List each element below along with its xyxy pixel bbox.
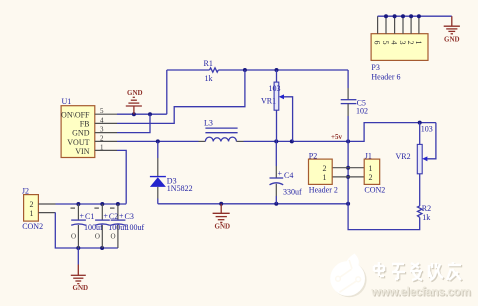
node P3 pin3 [401,14,405,18]
svg-text:1k: 1k [205,74,213,83]
svg-text:1N5822: 1N5822 [167,184,193,193]
svg-text:R1: R1 [204,59,213,68]
svg-text:2: 2 [323,164,327,173]
svg-text:R2: R2 [422,204,431,213]
wire R2 bottom return [348,204,420,230]
svg-text:J2: J2 [22,187,29,196]
svg-text:1: 1 [323,173,327,182]
header P2 [309,151,338,194]
svg-text:2: 2 [100,134,104,142]
svg-text:C1: C1 [85,212,94,221]
wire VOUT line left [117,140,199,142]
wire FB path [117,70,245,123]
node D3 top [156,139,160,143]
svg-text:+: + [103,212,108,221]
node C5 bottom / P2 feed [346,139,350,143]
inductor L3 [199,119,244,142]
node row2 [346,175,350,179]
svg-text:Header 6: Header 6 [371,73,400,82]
wire P2/J1 feed vertical [347,141,349,203]
svg-text:J1: J1 [365,151,372,160]
svg-text:2: 2 [406,41,415,45]
svg-text:1: 1 [30,209,34,218]
svg-text:3: 3 [398,41,407,45]
svg-text:ON\OFF: ON\OFF [61,111,90,120]
node C1 top [76,202,80,206]
svg-text:100uf: 100uf [126,223,145,232]
node C1 bottom [76,246,80,250]
potentiometer VR2 103 [396,121,436,206]
node GND2 [219,202,223,206]
svg-text:+: + [119,212,124,221]
wire ground rail [158,203,348,205]
wire +5v rail [244,123,436,142]
svg-text:2: 2 [369,173,373,182]
wire pin3 GND to ON/OFF row [117,114,150,132]
wire input top rail [56,203,127,205]
svg-text:GND: GND [73,284,89,292]
capacitor C4 330uf [270,141,303,203]
node C3 top [116,202,120,206]
svg-text:GND: GND [215,223,231,231]
svg-text:103: 103 [269,84,281,93]
wire top rail [167,69,348,71]
svg-text:103: 103 [421,124,433,133]
svg-text:4: 4 [100,116,104,124]
watermark logo elecfans [330,254,366,298]
potentiometer VR1 103 [261,68,293,141]
ground GND3 below C1 [71,248,88,292]
svg-text:+5v: +5v [331,133,342,141]
node P3 pin2 [409,14,413,18]
svg-text:1: 1 [414,41,423,45]
svg-text:6: 6 [373,41,382,45]
node pin3 junction [148,112,152,116]
svg-text:C3: C3 [125,212,134,221]
node GND stem junction [132,112,136,116]
node C2 top [100,202,104,206]
svg-text:Header 2: Header 2 [309,186,338,195]
watermark chinese text [375,263,462,281]
svg-text:GND: GND [72,129,90,138]
resistor R2 1k [418,204,432,222]
wire VIN down to input rail [117,150,126,203]
svg-text:1: 1 [369,164,373,173]
svg-text:C4: C4 [284,171,293,180]
svg-text:VOUT: VOUT [67,138,89,147]
svg-text:CON2: CON2 [364,186,385,195]
svg-text:VR2: VR2 [396,152,411,161]
ground GND4 top right [444,16,460,43]
svg-text:1k: 1k [422,213,430,222]
node P3 pin5 [384,14,388,18]
svg-text:O: O [95,232,100,240]
node row1 [346,166,350,170]
svg-text:5: 5 [100,107,104,115]
svg-text:VIN: VIN [75,147,89,156]
wire P2-J1 row2 [332,176,364,178]
node P3 pin1 [417,14,421,18]
ground GND1 above U1 [126,89,143,114]
svg-text:VR1: VR1 [261,96,276,105]
svg-text:O: O [111,232,116,240]
svg-text:+: + [80,212,85,221]
svg-text:GND: GND [127,89,143,97]
svg-text:2: 2 [30,200,34,209]
svg-text:+: + [278,169,283,178]
svg-text:P2: P2 [309,151,317,160]
svg-text:U1: U1 [62,97,72,106]
wire P3 bus [378,15,452,17]
connector J2 [22,187,56,231]
op IC U1 regulator [61,97,117,158]
svg-text:P3: P3 [371,63,379,72]
node R2 return [346,202,350,206]
wire P2-J1 row1 [332,167,364,169]
svg-text:FB: FB [80,119,90,128]
svg-text:5: 5 [381,41,390,45]
capacitor C3 100uf [110,204,145,248]
wire R1 left to ON/OFF [166,70,168,114]
header P3 [371,16,428,81]
wire J2 pin1 to bottom rail [55,213,118,248]
svg-text:4: 4 [390,41,399,45]
svg-text:O: O [71,232,76,240]
node C4 bottom [274,202,278,206]
svg-text:L3: L3 [204,119,213,128]
ground GND2 middle [213,204,230,231]
capacitor C1 100uf [71,204,104,248]
svg-text:CON2: CON2 [22,222,43,231]
svg-text:www.elecfans.com: www.elecfans.com [370,285,471,299]
node R1 right / FB junction [243,68,247,72]
node C4 top [274,139,278,143]
node VR1 wiper join [290,139,294,143]
connector J1 [364,151,385,194]
node C2 bottom [100,246,104,250]
svg-text:330uf: 330uf [283,188,302,197]
capacitor C2 100uf [94,204,127,248]
capacitor C5 102 [341,70,368,141]
svg-text:1: 1 [100,143,104,151]
diode D3 1N5822 [150,141,193,203]
svg-text:102: 102 [356,107,368,116]
svg-text:3: 3 [100,126,104,134]
resistor R1 [204,59,219,83]
node P3 pin4 [393,14,397,18]
svg-text:GND: GND [444,36,460,44]
wire ON/OFF row [117,113,167,115]
